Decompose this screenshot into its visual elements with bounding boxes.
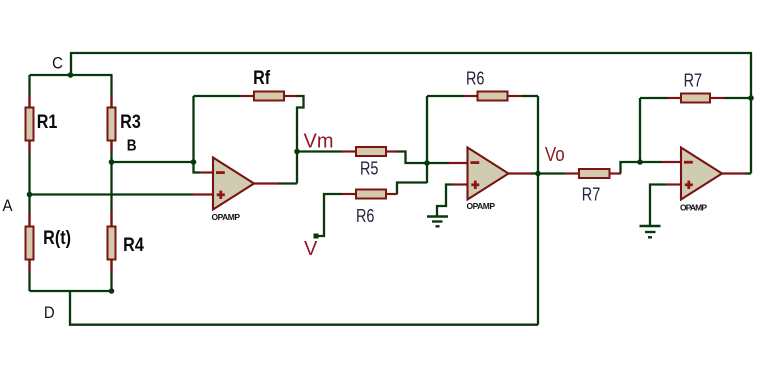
svg-text:Rf: Rf bbox=[253, 67, 270, 89]
svg-text:A: A bbox=[2, 197, 12, 215]
svg-text:R5: R5 bbox=[360, 158, 378, 179]
svg-text:R(t): R(t) bbox=[43, 227, 71, 249]
svg-text:B: B bbox=[127, 137, 137, 154]
svg-text:OPAMP: OPAMP bbox=[212, 212, 241, 222]
svg-text:D: D bbox=[44, 304, 55, 322]
svg-text:R7: R7 bbox=[684, 70, 702, 91]
svg-text:R6: R6 bbox=[356, 205, 374, 226]
svg-text:OPAMP: OPAMP bbox=[467, 201, 496, 211]
svg-text:OPAMP: OPAMP bbox=[680, 202, 707, 212]
svg-text:R7: R7 bbox=[582, 184, 600, 205]
svg-text:R6: R6 bbox=[466, 68, 484, 89]
svg-text:R3: R3 bbox=[120, 111, 141, 133]
svg-text:V: V bbox=[304, 238, 318, 260]
svg-text:C: C bbox=[52, 54, 63, 72]
svg-text:R4: R4 bbox=[123, 234, 144, 256]
svg-text:Vm: Vm bbox=[304, 131, 334, 153]
svg-text:Vo: Vo bbox=[545, 143, 565, 166]
svg-text:R1: R1 bbox=[37, 111, 58, 133]
